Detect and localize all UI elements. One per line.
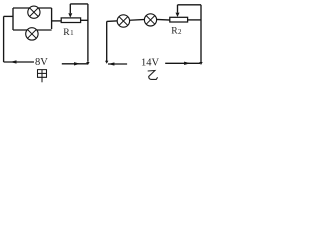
wire lamp bank to R1 xyxy=(52,20,62,22)
lamp L1 xyxy=(28,6,40,18)
wire top branch xyxy=(13,7,52,9)
lamp L4 xyxy=(144,14,156,26)
R1 wiper arrow xyxy=(68,13,72,17)
wire left connector of parallel lamps xyxy=(12,8,14,30)
wire feed from left rail to lamp bank xyxy=(4,15,13,17)
wire left rail circuit A xyxy=(3,16,5,62)
wire bottom branch xyxy=(13,29,52,31)
wire bottom left with arrow circuit A xyxy=(4,60,34,63)
wire rheostat top to right rail circuit B xyxy=(178,4,202,6)
R2 wiper arrow xyxy=(176,13,180,17)
wire R2 to right rail xyxy=(188,19,201,21)
lamp L2 xyxy=(26,28,38,40)
wire right rail circuit A xyxy=(87,4,89,62)
lamp L3 xyxy=(117,15,129,27)
svg-text:2: 2 xyxy=(178,28,182,36)
resistor R1 body xyxy=(61,18,80,23)
resistor R2 body xyxy=(170,17,188,22)
wire bottom right with arrow circuit A xyxy=(62,62,88,65)
right rail terminal arrow circuit B xyxy=(199,62,202,65)
wire top run circuit B xyxy=(107,19,171,21)
left rail terminal arrow circuit B xyxy=(105,61,108,64)
wire R2 wiper lead xyxy=(177,5,179,13)
wire rheostat top to right rail xyxy=(70,3,88,5)
svg-text:14V: 14V xyxy=(141,57,160,68)
label yi (Chinese B) xyxy=(148,71,158,80)
wire R1 wiper lead xyxy=(69,4,71,13)
wire bottom left with arrow circuit B xyxy=(108,62,127,65)
wire right rail circuit B xyxy=(200,5,202,62)
wire bottom right with arrow circuit B xyxy=(165,62,200,65)
wire left rail circuit B xyxy=(106,21,108,61)
svg-text:8V: 8V xyxy=(35,57,48,68)
wire right connector of parallel lamps xyxy=(51,8,53,29)
svg-text:1: 1 xyxy=(70,29,74,37)
wire R1 to right rail xyxy=(81,19,88,21)
label jia (Chinese A) xyxy=(38,70,47,83)
right rail terminal arrow xyxy=(86,62,89,65)
